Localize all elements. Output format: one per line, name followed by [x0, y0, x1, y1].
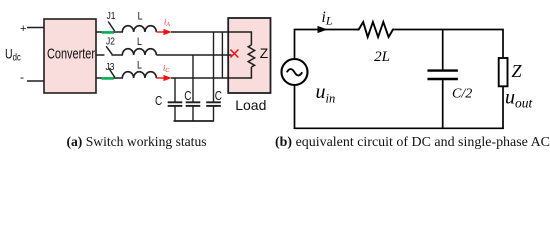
load resistor Z zigzag [248, 45, 254, 67]
source circle [282, 59, 308, 85]
source sine [287, 69, 302, 75]
svg-text:C: C [155, 95, 162, 108]
wire row2 to x [156, 54, 231, 56]
current arrow iA [156, 31, 165, 33]
capacitor C1 plates [168, 101, 183, 103]
inductor L row2 [122, 49, 156, 55]
open phase cross [230, 50, 238, 58]
svg-text:+: + [20, 23, 26, 35]
svg-text:J2: J2 [106, 36, 115, 48]
svg-text:Z: Z [260, 46, 268, 61]
capacitor C2 plates [186, 101, 201, 103]
svg-text:2L: 2L [374, 49, 390, 65]
current arrow iL [318, 26, 328, 33]
wire row2 stub [96, 54, 105, 56]
load box [228, 18, 270, 93]
wire row1-row3 tie [221, 32, 223, 78]
svg-text:L: L [137, 60, 142, 72]
inductor 2L zigzag [357, 22, 394, 37]
switch J3 closed green [102, 77, 114, 80]
wire b top right [394, 30, 503, 59]
wire row3 to coil [114, 77, 124, 79]
converter box [44, 19, 96, 93]
svg-text:C/2: C/2 [452, 87, 472, 102]
wire dc plus [27, 27, 44, 29]
wire row1 stub [96, 31, 102, 33]
svg-text:C: C [184, 90, 191, 103]
wire row3 to load [171, 77, 252, 79]
wire row1 to load [171, 31, 252, 33]
svg-text:uout: uout [505, 87, 534, 111]
inductor L row1 [122, 26, 156, 32]
wire b left bottom [294, 85, 296, 129]
capacitor star bottom rail [174, 120, 214, 122]
current arrow iC [156, 77, 165, 79]
svg-text:iA: iA [164, 18, 170, 28]
svg-text:C: C [215, 90, 222, 103]
svg-text:iL: iL [322, 9, 333, 27]
switch J1 closed green [102, 31, 114, 34]
wire row2 to coil [112, 54, 124, 56]
capacitor C1 leg [174, 78, 176, 102]
switch J2 blade [106, 46, 112, 54]
svg-text:Load: Load [235, 97, 266, 113]
svg-text:L: L [138, 11, 143, 23]
capacitor C3 leg [213, 32, 215, 102]
capacitor C2 leg [192, 55, 194, 102]
capacitor C3 plates [206, 101, 221, 103]
svg-text:(a) Switch working status: (a) Switch working status [66, 134, 206, 150]
capacitor C/2 plates [427, 69, 458, 71]
svg-text:(b) equivalent circuit of DC a: (b) equivalent circuit of DC and single-… [275, 135, 550, 150]
capacitor C/2 bottom leg [442, 79, 444, 128]
wire row3 stub [96, 77, 102, 79]
wire b right bottom [502, 86, 504, 129]
switch J3 blade [109, 68, 115, 77]
svg-text:-: - [20, 70, 24, 84]
impedance Z box [499, 58, 508, 86]
wire row1 to coil [114, 31, 124, 33]
load resistor Z bottom lead [250, 67, 252, 78]
svg-text:L: L [137, 36, 142, 48]
svg-text:iC: iC [163, 64, 170, 74]
wire b left top [295, 30, 358, 60]
load resistor Z top lead [250, 32, 252, 45]
svg-text:J1: J1 [107, 10, 116, 22]
svg-text:uin: uin [316, 81, 336, 106]
inductor L row3 [122, 72, 156, 78]
switch J1 blade [108, 22, 114, 32]
svg-text:Converter: Converter [47, 45, 96, 62]
capacitor C/2 top leg [442, 30, 444, 71]
wire dc minus [27, 80, 44, 82]
svg-text:J3: J3 [106, 61, 115, 73]
svg-text:Udc: Udc [5, 46, 21, 62]
wire b bottom rail [294, 127, 504, 129]
svg-text:Z: Z [512, 61, 523, 81]
